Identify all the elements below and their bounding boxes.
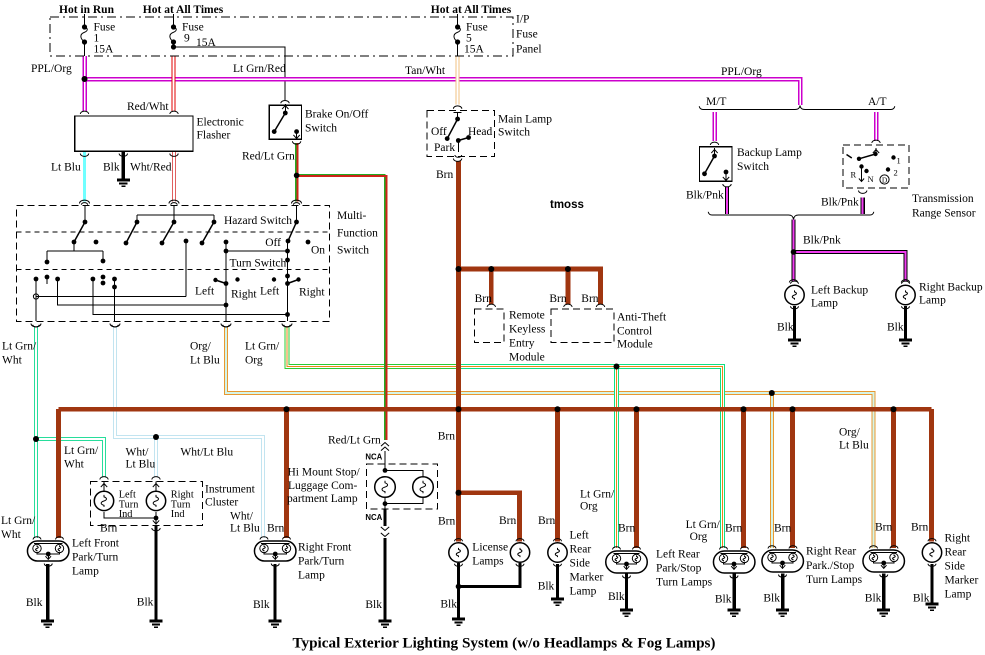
svg-text:Red/Wht: Red/Wht [127, 101, 169, 113]
svg-text:On: On [311, 245, 325, 257]
svg-text:Lt Blu: Lt Blu [51, 162, 81, 174]
svg-text:Lamp: Lamp [811, 298, 838, 310]
svg-text:PPL/Org: PPL/Org [721, 66, 762, 78]
svg-text:Brn: Brn [499, 515, 517, 527]
svg-text:Lamp: Lamp [919, 295, 946, 307]
svg-text:tmoss: tmoss [550, 199, 584, 211]
svg-text:1: 1 [897, 156, 901, 166]
svg-text:Remote: Remote [509, 310, 545, 322]
svg-text:Instrument: Instrument [205, 484, 256, 496]
svg-text:Wht: Wht [64, 459, 85, 471]
svg-text:Right: Right [945, 533, 971, 545]
svg-text:PPL/Org: PPL/Org [31, 63, 72, 75]
svg-text:Hazard Switch: Hazard Switch [224, 215, 292, 227]
svg-text:Park/Turn: Park/Turn [72, 552, 118, 564]
svg-text:Org: Org [580, 501, 598, 513]
svg-text:Main Lamp: Main Lamp [498, 114, 552, 126]
svg-text:N: N [868, 174, 874, 184]
svg-text:Head: Head [468, 126, 493, 138]
svg-text:Park/Turn: Park/Turn [298, 556, 344, 568]
svg-text:Blk: Blk [538, 581, 555, 593]
svg-text:Brn: Brn [911, 522, 929, 534]
svg-text:Brn: Brn [538, 515, 556, 527]
svg-text:Panel: Panel [516, 44, 542, 56]
svg-text:15A: 15A [94, 44, 115, 56]
svg-text:Lamp: Lamp [570, 586, 597, 598]
svg-text:Blk: Blk [913, 593, 930, 605]
svg-text:Flasher: Flasher [197, 130, 231, 142]
svg-text:Blk: Blk [763, 593, 780, 605]
svg-text:Blk: Blk [26, 597, 43, 609]
svg-text:NCA: NCA [365, 453, 382, 462]
svg-text:Left Front: Left Front [72, 538, 120, 550]
svg-text:Hot in Run: Hot in Run [59, 4, 115, 16]
svg-text:Lamps: Lamps [472, 556, 504, 568]
svg-text:Anti-Theft: Anti-Theft [617, 312, 667, 324]
svg-text:Lt Grn/: Lt Grn/ [64, 445, 99, 457]
svg-text:partment Lamp: partment Lamp [287, 493, 358, 505]
svg-text:Keyless: Keyless [509, 324, 546, 336]
svg-text:Brn: Brn [774, 523, 792, 535]
svg-text:Brake On/Off: Brake On/Off [305, 109, 369, 121]
svg-text:Rear: Rear [570, 544, 592, 556]
svg-text:Right: Right [231, 289, 257, 301]
svg-text:Left: Left [260, 286, 280, 298]
svg-text:Brn: Brn [436, 169, 454, 181]
svg-text:Lt Blu: Lt Blu [190, 355, 220, 367]
svg-text:Off: Off [265, 237, 281, 249]
svg-text:Entry: Entry [509, 338, 535, 350]
svg-text:Tan/Wht: Tan/Wht [405, 65, 446, 77]
svg-text:Lt Grn/: Lt Grn/ [1, 515, 36, 527]
svg-text:Left: Left [195, 286, 215, 298]
svg-text:Blk/Pnk: Blk/Pnk [686, 190, 724, 202]
svg-text:Ind: Ind [119, 509, 134, 520]
svg-text:Right: Right [299, 287, 325, 299]
svg-text:Range Sensor: Range Sensor [912, 208, 976, 220]
svg-text:Blk: Blk [865, 593, 882, 605]
svg-text:Brn: Brn [100, 523, 118, 535]
svg-text:Lt Grn/: Lt Grn/ [580, 489, 615, 501]
svg-text:Brn: Brn [438, 431, 456, 443]
svg-text:Luggage Com-: Luggage Com- [288, 480, 357, 492]
svg-text:Marker: Marker [570, 572, 604, 584]
svg-text:Rear: Rear [945, 547, 967, 559]
svg-text:Turn Lamps: Turn Lamps [656, 577, 713, 589]
svg-text:Hi Mount Stop/: Hi Mount Stop/ [288, 467, 361, 479]
svg-text:NCA: NCA [365, 513, 382, 522]
svg-text:Brn: Brn [549, 293, 567, 305]
svg-text:Function: Function [337, 228, 378, 240]
svg-text:Org/: Org/ [839, 427, 861, 439]
svg-text:Ind: Ind [171, 509, 186, 520]
svg-text:License: License [472, 542, 508, 554]
svg-text:Blk: Blk [608, 591, 625, 603]
svg-text:Brn: Brn [581, 293, 599, 305]
svg-text:Blk: Blk [103, 162, 120, 174]
svg-text:Switch: Switch [337, 245, 369, 257]
svg-text:Blk: Blk [365, 599, 382, 611]
svg-text:Brn: Brn [875, 522, 893, 534]
svg-text:Org: Org [690, 531, 708, 543]
svg-text:Blk: Blk [777, 322, 794, 334]
svg-text:I/P: I/P [516, 14, 529, 26]
svg-text:Blk: Blk [137, 597, 154, 609]
svg-text:Typical Exterior Lighting Syst: Typical Exterior Lighting System (w/o He… [292, 635, 715, 652]
svg-text:15A: 15A [196, 37, 217, 49]
svg-text:Right Front: Right Front [298, 542, 352, 554]
svg-text:R: R [851, 170, 857, 180]
svg-text:Right Backup: Right Backup [919, 282, 983, 294]
svg-text:Switch: Switch [305, 123, 337, 135]
svg-text:Multi-: Multi- [337, 210, 367, 222]
svg-text:Wht: Wht [2, 355, 23, 367]
svg-text:Wht/Lt Blu: Wht/Lt Blu [180, 447, 233, 459]
svg-text:Brn: Brn [475, 293, 493, 305]
svg-text:Side: Side [570, 558, 590, 570]
svg-text:15A: 15A [464, 44, 485, 56]
svg-text:Left Backup: Left Backup [811, 285, 868, 297]
svg-text:A/T: A/T [868, 96, 887, 108]
svg-text:Org: Org [245, 355, 263, 367]
svg-text:Right Rear: Right Rear [806, 546, 856, 558]
svg-text:Switch: Switch [498, 127, 530, 139]
svg-text:Blk/Pnk: Blk/Pnk [803, 235, 841, 247]
svg-text:Lamp: Lamp [298, 570, 325, 582]
svg-text:Lamp: Lamp [72, 566, 99, 578]
svg-text:Brn: Brn [618, 523, 636, 535]
svg-text:M/T: M/T [706, 96, 726, 108]
svg-text:Turn Switch: Turn Switch [230, 258, 287, 270]
svg-text:Module: Module [617, 339, 653, 351]
svg-text:Brn: Brn [267, 523, 285, 535]
svg-text:2: 2 [894, 168, 898, 178]
svg-text:Brn: Brn [725, 523, 743, 535]
svg-text:Lt Grn/: Lt Grn/ [686, 519, 721, 531]
svg-text:Red/Lt Grn: Red/Lt Grn [242, 151, 295, 163]
svg-text:Blk: Blk [253, 599, 270, 611]
svg-text:Left Rear: Left Rear [656, 549, 700, 561]
svg-text:Blk: Blk [440, 599, 457, 611]
svg-text:Wht: Wht [1, 529, 22, 541]
svg-text:Hot at All Times: Hot at All Times [143, 4, 224, 16]
svg-text:Lamp: Lamp [945, 589, 972, 601]
svg-text:Lt Grn/: Lt Grn/ [245, 341, 280, 353]
svg-text:Lt Blu: Lt Blu [230, 523, 260, 535]
svg-text:Org/: Org/ [190, 341, 212, 353]
svg-text:Switch: Switch [737, 161, 769, 173]
svg-text:Backup Lamp: Backup Lamp [737, 147, 802, 159]
svg-text:Fuse: Fuse [516, 29, 538, 41]
svg-text:9: 9 [184, 33, 190, 45]
svg-text:Marker: Marker [945, 575, 979, 587]
svg-text:Electronic: Electronic [197, 117, 244, 129]
svg-text:Park/Stop: Park/Stop [656, 563, 702, 575]
svg-text:Lt Grn/: Lt Grn/ [2, 341, 37, 353]
svg-text:Transmission: Transmission [912, 193, 974, 205]
svg-text:Blk/Pnk: Blk/Pnk [821, 197, 859, 209]
svg-text:Turn Lamps: Turn Lamps [806, 574, 863, 586]
svg-text:Hot at All Times: Hot at All Times [431, 4, 512, 16]
svg-text:Wht/: Wht/ [230, 511, 254, 523]
svg-text:Side: Side [945, 561, 965, 573]
svg-text:Wht/: Wht/ [126, 447, 150, 459]
svg-text:Park: Park [434, 142, 455, 154]
svg-text:Off: Off [431, 126, 447, 138]
svg-text:Module: Module [509, 352, 545, 364]
svg-text:Red/Lt Grn: Red/Lt Grn [328, 435, 381, 447]
svg-text:Blk: Blk [887, 322, 904, 334]
svg-text:Brn: Brn [438, 516, 456, 528]
svg-text:D: D [882, 176, 888, 185]
svg-text:Lt Blu: Lt Blu [126, 459, 156, 471]
svg-text:Park./Stop: Park./Stop [806, 560, 854, 572]
svg-text:Wht/Red: Wht/Red [130, 162, 172, 174]
svg-text:Cluster: Cluster [205, 497, 238, 509]
svg-text:Lt Grn/Red: Lt Grn/Red [233, 63, 286, 75]
svg-text:Blk: Blk [715, 594, 732, 606]
svg-text:Control: Control [617, 326, 652, 338]
svg-text:Left: Left [570, 530, 590, 542]
svg-text:Lt Blu: Lt Blu [839, 440, 869, 452]
